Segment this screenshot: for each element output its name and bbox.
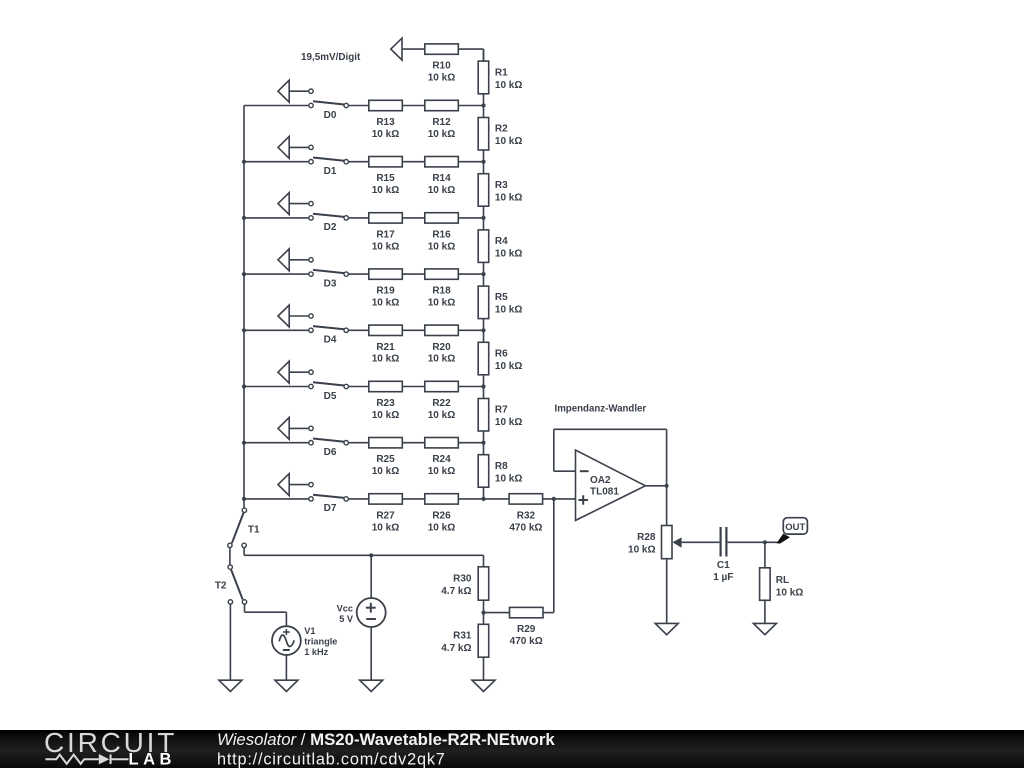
svg-text:LAB: LAB bbox=[129, 750, 176, 768]
svg-text:R18: R18 bbox=[432, 286, 451, 297]
svg-text:4.7 kΩ: 4.7 kΩ bbox=[441, 586, 471, 597]
svg-text:10 kΩ: 10 kΩ bbox=[628, 545, 655, 556]
svg-text:R13: R13 bbox=[376, 117, 395, 128]
svg-text:D5: D5 bbox=[324, 391, 337, 402]
svg-text:triangle: triangle bbox=[304, 637, 337, 647]
svg-text:R30: R30 bbox=[453, 574, 472, 585]
svg-text:D6: D6 bbox=[324, 447, 337, 458]
svg-text:10 kΩ: 10 kΩ bbox=[372, 185, 399, 196]
svg-text:Wiesolator / MS20-Wavetable-R2: Wiesolator / MS20-Wavetable-R2R-NEtwork bbox=[217, 730, 555, 749]
svg-text:R14: R14 bbox=[432, 173, 451, 184]
svg-text:10 kΩ: 10 kΩ bbox=[495, 80, 522, 91]
svg-text:10 kΩ: 10 kΩ bbox=[428, 466, 455, 477]
svg-text:10 kΩ: 10 kΩ bbox=[428, 185, 455, 196]
svg-text:R5: R5 bbox=[495, 292, 508, 303]
svg-text:R25: R25 bbox=[376, 454, 395, 465]
svg-text:10 kΩ: 10 kΩ bbox=[428, 73, 455, 84]
svg-text:D7: D7 bbox=[324, 503, 337, 514]
svg-text:D4: D4 bbox=[324, 335, 337, 346]
svg-text:T1: T1 bbox=[248, 524, 260, 535]
svg-text:R4: R4 bbox=[495, 236, 508, 247]
svg-text:10 kΩ: 10 kΩ bbox=[495, 192, 522, 203]
svg-text:4.7 kΩ: 4.7 kΩ bbox=[441, 643, 471, 654]
svg-text:10 kΩ: 10 kΩ bbox=[495, 249, 522, 260]
svg-text:10 kΩ: 10 kΩ bbox=[776, 588, 803, 599]
svg-text:V1: V1 bbox=[304, 626, 315, 636]
svg-text:R21: R21 bbox=[376, 342, 395, 353]
svg-text:R1: R1 bbox=[495, 67, 508, 78]
svg-text:R6: R6 bbox=[495, 348, 508, 359]
svg-text:10 kΩ: 10 kΩ bbox=[495, 136, 522, 147]
svg-text:R17: R17 bbox=[376, 229, 395, 240]
svg-text:R28: R28 bbox=[637, 532, 656, 543]
svg-text:10 kΩ: 10 kΩ bbox=[428, 354, 455, 365]
svg-text:R23: R23 bbox=[376, 398, 395, 409]
svg-text:10 kΩ: 10 kΩ bbox=[495, 361, 522, 372]
svg-text:10 kΩ: 10 kΩ bbox=[495, 305, 522, 316]
svg-text:R2: R2 bbox=[495, 124, 508, 135]
svg-text:R22: R22 bbox=[432, 398, 451, 409]
svg-text:R31: R31 bbox=[453, 631, 472, 642]
svg-text:10 kΩ: 10 kΩ bbox=[372, 298, 399, 309]
svg-text:R19: R19 bbox=[376, 286, 395, 297]
svg-text:C1: C1 bbox=[717, 560, 730, 571]
svg-text:5 V: 5 V bbox=[339, 614, 354, 624]
svg-text:1 kHz: 1 kHz bbox=[304, 647, 328, 657]
svg-text:R27: R27 bbox=[376, 510, 395, 521]
svg-text:470 kΩ: 470 kΩ bbox=[509, 522, 542, 533]
svg-text:http://circuitlab.com/cdv2qk7: http://circuitlab.com/cdv2qk7 bbox=[217, 750, 446, 768]
svg-text:10 kΩ: 10 kΩ bbox=[372, 354, 399, 365]
svg-text:R16: R16 bbox=[432, 229, 451, 240]
svg-text:R12: R12 bbox=[432, 117, 451, 128]
svg-text:10 kΩ: 10 kΩ bbox=[495, 473, 522, 484]
svg-text:T2: T2 bbox=[215, 580, 227, 591]
svg-text:D1: D1 bbox=[324, 166, 337, 177]
svg-text:R15: R15 bbox=[376, 173, 395, 184]
svg-text:R3: R3 bbox=[495, 180, 508, 191]
svg-text:10 kΩ: 10 kΩ bbox=[428, 522, 455, 533]
svg-text:10 kΩ: 10 kΩ bbox=[372, 466, 399, 477]
svg-text:R32: R32 bbox=[517, 510, 536, 521]
svg-text:R10: R10 bbox=[432, 61, 451, 72]
svg-text:D2: D2 bbox=[324, 222, 337, 233]
svg-text:R29: R29 bbox=[517, 624, 536, 635]
svg-text:19,5mV/Digit: 19,5mV/Digit bbox=[301, 52, 361, 63]
svg-text:470 kΩ: 470 kΩ bbox=[510, 636, 543, 647]
svg-text:Vcc: Vcc bbox=[337, 603, 353, 613]
svg-text:10 kΩ: 10 kΩ bbox=[428, 410, 455, 421]
svg-text:OA2: OA2 bbox=[590, 475, 611, 486]
svg-text:10 kΩ: 10 kΩ bbox=[428, 241, 455, 252]
svg-text:Impendanz-Wandler: Impendanz-Wandler bbox=[555, 404, 647, 415]
svg-text:10 kΩ: 10 kΩ bbox=[428, 129, 455, 140]
svg-text:R8: R8 bbox=[495, 461, 508, 472]
svg-text:R7: R7 bbox=[495, 405, 508, 416]
svg-text:10 kΩ: 10 kΩ bbox=[372, 129, 399, 140]
svg-text:10 kΩ: 10 kΩ bbox=[372, 410, 399, 421]
svg-text:D3: D3 bbox=[324, 278, 337, 289]
svg-text:D0: D0 bbox=[324, 110, 337, 121]
svg-text:10 kΩ: 10 kΩ bbox=[495, 417, 522, 428]
svg-text:R24: R24 bbox=[432, 454, 451, 465]
svg-text:10 kΩ: 10 kΩ bbox=[428, 298, 455, 309]
svg-text:10 kΩ: 10 kΩ bbox=[372, 241, 399, 252]
svg-text:R20: R20 bbox=[432, 342, 451, 353]
svg-text:TL081: TL081 bbox=[590, 486, 619, 497]
svg-text:1 µF: 1 µF bbox=[713, 572, 733, 583]
svg-text:R26: R26 bbox=[432, 510, 451, 521]
svg-text:10 kΩ: 10 kΩ bbox=[372, 522, 399, 533]
svg-text:RL: RL bbox=[776, 575, 789, 586]
svg-text:OUT: OUT bbox=[785, 522, 805, 533]
